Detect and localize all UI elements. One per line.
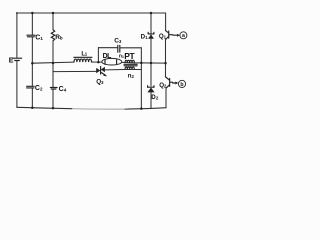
wire C3 top right xyxy=(120,47,141,49)
wire left rail upper xyxy=(16,13,18,58)
wire arrow to terminal a xyxy=(173,34,180,37)
thyristor Q3 xyxy=(96,66,107,85)
capacitor C1 xyxy=(27,34,44,41)
diode D1 xyxy=(141,32,154,40)
wire Q column middle xyxy=(165,40,167,77)
svg-text:b: b xyxy=(60,36,63,42)
diode D2 xyxy=(147,86,159,101)
svg-text:1: 1 xyxy=(85,52,88,57)
wire starter line left xyxy=(53,70,96,72)
terminal b xyxy=(178,80,185,88)
svg-text:1: 1 xyxy=(40,36,43,41)
wire Q3 to n2 xyxy=(105,69,125,71)
wire bottom rail xyxy=(17,107,72,108)
node lamp left junction xyxy=(97,61,100,64)
node top rail junctions xyxy=(16,12,152,15)
transformer PT secondary n2 xyxy=(125,67,135,79)
svg-text:3: 3 xyxy=(119,39,122,44)
battery E xyxy=(9,57,22,64)
resistor Rb xyxy=(51,30,62,42)
wire C4 column lower xyxy=(52,90,54,108)
svg-text:4: 4 xyxy=(64,88,67,93)
transistor Q2 xyxy=(159,77,172,89)
transformer PT primary n1 xyxy=(119,51,136,63)
wire C3 top left xyxy=(98,47,117,49)
wire arrow to terminal b xyxy=(173,82,179,85)
svg-text:a: a xyxy=(182,33,185,39)
wire D column upper xyxy=(150,13,152,33)
transformer PT core xyxy=(124,64,137,66)
wire mid line from C divider to lamp xyxy=(32,62,98,63)
node bottom rail junctions xyxy=(31,106,143,109)
wire Q column upper xyxy=(165,13,167,31)
svg-text:b: b xyxy=(180,82,183,88)
wire Q column lower xyxy=(165,88,167,108)
wire C1/C2 column xyxy=(31,13,33,108)
discharge lamp DL xyxy=(102,53,122,65)
wire top rail xyxy=(17,12,166,14)
node mid line junctions xyxy=(31,62,167,65)
wire D column middle xyxy=(150,39,152,86)
capacitor C3 xyxy=(114,38,122,53)
wire C3 branch riser left xyxy=(97,48,99,62)
svg-text:E: E xyxy=(9,57,14,64)
svg-text:2: 2 xyxy=(40,87,43,92)
capacitor C4 xyxy=(50,86,66,93)
svg-text:2: 2 xyxy=(132,74,135,79)
svg-text:3: 3 xyxy=(101,80,104,85)
wire lamp left lead xyxy=(98,61,102,63)
wire n2 lead to riser xyxy=(125,69,142,71)
capacitor C2 xyxy=(27,85,43,92)
wire left rail lower xyxy=(16,61,18,107)
svg-text:DL: DL xyxy=(103,53,112,60)
inductor L1 xyxy=(74,51,92,62)
wire Rb column upper xyxy=(52,13,54,30)
wire Rb column lower to starter node xyxy=(52,41,54,87)
svg-text:1: 1 xyxy=(145,35,148,40)
terminal a xyxy=(180,32,187,39)
wire lamp right lead and mid rail to half-bridge xyxy=(122,61,166,64)
wire D column lower xyxy=(150,92,152,108)
transistor Q1 xyxy=(159,31,173,40)
svg-text:PT: PT xyxy=(124,51,135,61)
svg-text:2: 2 xyxy=(156,96,159,101)
wire right riser x=141.4 down to bottom rail xyxy=(140,48,142,109)
